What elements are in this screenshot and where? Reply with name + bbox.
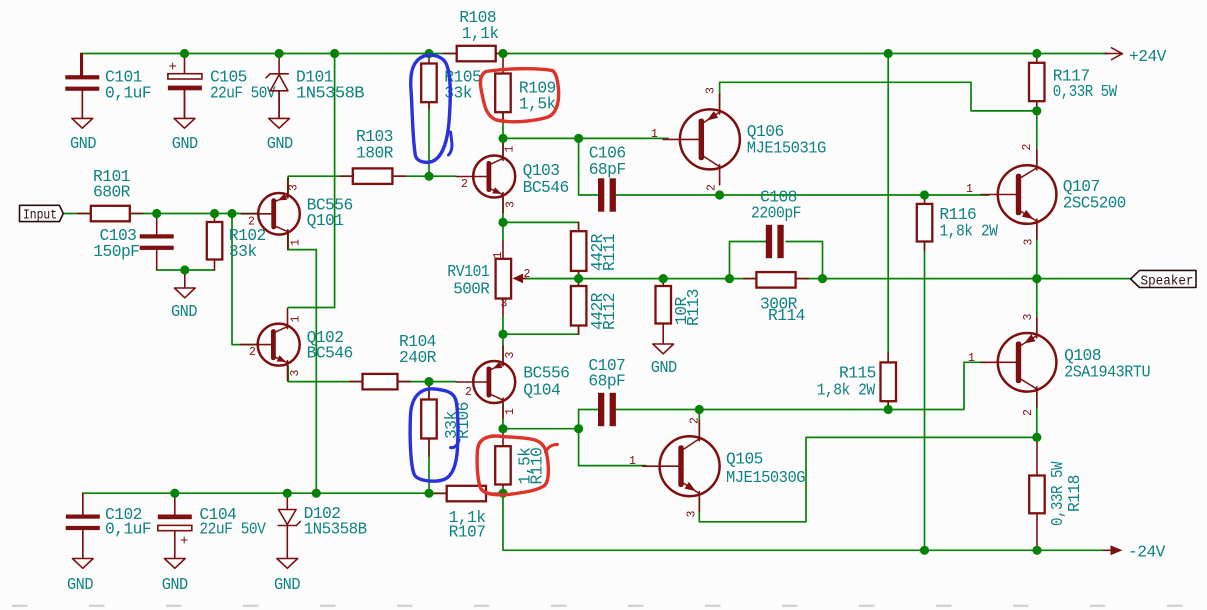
resistor R116: [924, 242, 926, 251]
resistor R101: [78, 213, 91, 215]
svg-text:R114: R114: [768, 306, 805, 325]
transistor Q108: [998, 333, 1057, 392]
svg-text:500R: 500R: [453, 280, 490, 299]
svg-text:MJE15031G: MJE15031G: [747, 139, 826, 158]
wire Q105 base branch: [579, 429, 646, 466]
svg-text:2SC5200: 2SC5200: [1063, 194, 1126, 213]
svg-text:R111: R111: [600, 234, 619, 271]
svg-text:Q105: Q105: [726, 450, 763, 469]
wire R112 top stub: [578, 279, 580, 286]
wire Q102 base: [232, 214, 258, 345]
resistor R106: [428, 383, 430, 400]
capacitor C103: [156, 214, 158, 235]
svg-text:1: 1: [966, 183, 973, 196]
capacitor C101: [81, 54, 83, 76]
svg-text:3: 3: [1023, 239, 1036, 246]
svg-text:68pF: 68pF: [589, 160, 626, 179]
svg-text:1: 1: [290, 239, 303, 246]
wire Q108 emitter to speaker rail: [1036, 279, 1038, 333]
wire +24V top rail: [81, 53, 1108, 55]
wire C106 left branch: [579, 138, 599, 195]
wire C107 left branch: [579, 410, 599, 429]
svg-text:2SA1943RTU: 2SA1943RTU: [1064, 363, 1150, 382]
resistor R107: [434, 493, 447, 495]
wire C107 right to Q108 base: [615, 362, 989, 409]
wire Q106 emitter to R117 bottom: [720, 82, 1037, 111]
svg-text:Input: Input: [23, 208, 57, 223]
annotation red circle R109: [480, 69, 558, 122]
svg-text:2: 2: [248, 216, 255, 229]
wire Q103 emitter node to R111 top: [503, 222, 579, 231]
ground C101: [81, 91, 83, 119]
svg-text:33k: 33k: [229, 242, 257, 261]
svg-text:1: 1: [504, 146, 517, 153]
resistor R108: [444, 53, 457, 55]
svg-text:3: 3: [288, 184, 301, 191]
wire RV101 wiper to speaker rail: [524, 278, 579, 280]
svg-text:R107: R107: [449, 523, 486, 542]
wire Q107 collector: [1036, 111, 1038, 166]
transistor Q107: [998, 165, 1057, 224]
resistor R112: [578, 279, 580, 286]
svg-text:R112: R112: [600, 293, 619, 330]
ground D102: [286, 558, 288, 560]
power port +24V: [1104, 53, 1122, 55]
svg-text:68pF: 68pF: [588, 372, 625, 391]
svg-text:GND: GND: [162, 575, 188, 594]
svg-text:GND: GND: [274, 575, 300, 594]
wire Q102 emitter to R104: [288, 366, 362, 382]
ground input node: [184, 270, 186, 288]
svg-text:1,5k: 1,5k: [519, 95, 556, 114]
wire R109 bottom to Q103 collector: [502, 112, 504, 156]
wire R118 bottom stub: [1036, 513, 1038, 550]
zener diode D102: [286, 493, 288, 509]
power port -24V: [1103, 549, 1112, 551]
wire -24V rail: [503, 493, 1111, 550]
wire Q102 collector horizontal: [288, 307, 334, 309]
wire R104 right to Q104 base node: [398, 381, 457, 383]
wire C101 rail drop: [80, 54, 82, 76]
svg-text:1N5358B: 1N5358B: [304, 520, 368, 539]
ground C104: [174, 558, 176, 560]
svg-text:0,1uF: 0,1uF: [105, 84, 151, 103]
wire R117 top stub: [1036, 54, 1038, 63]
ground C102: [82, 531, 84, 559]
svg-text:2: 2: [706, 184, 719, 191]
transistor Q105: [660, 436, 720, 496]
svg-text:R113: R113: [684, 289, 703, 326]
wire R115 bottom stub: [887, 401, 889, 409]
svg-text:2: 2: [249, 346, 256, 359]
resistor R105: [428, 54, 430, 64]
svg-text:0,1uF: 0,1uF: [105, 520, 151, 539]
svg-text:1N5358B: 1N5358B: [296, 84, 365, 103]
sheet border dashes: [12, 605, 1183, 607]
annotation red circle R110: [477, 436, 548, 495]
capacitor C104: [174, 493, 176, 514]
transistor Q101: [258, 193, 300, 235]
resistor R113: [662, 279, 664, 286]
wire R106 bottom: [428, 439, 430, 494]
capacitor C102: [82, 493, 84, 514]
wire speaker rail: [524, 278, 1131, 280]
svg-text:2: 2: [689, 417, 702, 424]
wire Q105 emitter to R118 node: [699, 437, 1037, 521]
wire C108 left branch: [730, 242, 767, 279]
capacitor C106: [598, 178, 604, 211]
wire Q104 collector: [502, 403, 504, 429]
wire R116 top stub: [924, 195, 926, 204]
svg-text:BC546: BC546: [307, 344, 353, 363]
wire Q101 collector to negative rail vertical: [315, 250, 317, 494]
svg-text:GND: GND: [267, 134, 293, 153]
wire C103/R102 bottom to GND node: [157, 269, 215, 271]
svg-text:3: 3: [505, 201, 518, 208]
wire negative filtered rail: [83, 492, 503, 494]
wire Q105 collector stub: [698, 410, 700, 437]
ground R113: [662, 324, 664, 345]
wire R116 bottom to -24V rail: [924, 242, 926, 551]
svg-text:2: 2: [461, 178, 468, 191]
svg-text:GND: GND: [171, 302, 197, 321]
transistor Q102: [258, 324, 300, 366]
net label Speaker: [1131, 270, 1196, 287]
wire C102 rail drop: [82, 493, 84, 514]
svg-text:+: +: [169, 60, 177, 76]
resistor R104: [350, 381, 363, 383]
resistor R103: [340, 175, 353, 177]
wire RV101 pin3 to mid node: [502, 299, 504, 317]
wire C106 right to Q107 base: [615, 194, 989, 196]
wire Q101 collector: [288, 233, 316, 250]
svg-text:3: 3: [705, 87, 718, 94]
wire R105 bottom to node: [428, 102, 430, 176]
wire R112 bottom to mid node: [503, 326, 579, 335]
svg-text:3: 3: [501, 298, 508, 311]
capacitor C108: [766, 225, 772, 258]
svg-text:GND: GND: [172, 134, 198, 153]
svg-text:1,8k 2W: 1,8k 2W: [817, 381, 876, 400]
svg-text:2: 2: [465, 386, 472, 399]
svg-text:Speaker: Speaker: [1141, 274, 1194, 289]
svg-text:3: 3: [1022, 314, 1035, 321]
potentiometer RV101: [496, 259, 512, 299]
svg-text:3: 3: [686, 511, 699, 518]
svg-text:180R: 180R: [356, 144, 394, 163]
wire R111 bottom stub: [578, 271, 580, 279]
svg-text:Q101: Q101: [307, 211, 344, 230]
transistor Q106: [680, 109, 740, 169]
resistor R102: [214, 214, 216, 223]
ground C105: [184, 90, 186, 118]
svg-text:R118: R118: [1065, 475, 1084, 512]
annotation blue circle R106: [410, 389, 458, 481]
capacitor C107: [598, 393, 604, 426]
svg-text:1: 1: [504, 408, 517, 415]
capacitor C105: [184, 54, 186, 74]
wire Q108 collector: [1036, 391, 1038, 437]
svg-text:3: 3: [289, 370, 302, 377]
svg-text:1,8k 2W: 1,8k 2W: [939, 222, 998, 241]
svg-text:Q104: Q104: [523, 381, 560, 400]
svg-text:MJE15030G: MJE15030G: [726, 468, 805, 487]
wire Q102 collector to +24V rail vertical: [334, 54, 336, 308]
svg-text:22uF 50V: 22uF 50V: [210, 84, 276, 103]
svg-text:GND: GND: [70, 134, 96, 153]
wire Q103 collector node to Q106 base: [503, 137, 668, 139]
wire R106 top stub: [428, 382, 430, 400]
wire +24V rail to R115 top: [887, 54, 889, 363]
wire Q101 emitter to R103: [288, 176, 353, 194]
svg-text:2200pF: 2200pF: [751, 203, 801, 222]
svg-text:0,33R 5W: 0,33R 5W: [1053, 82, 1118, 101]
svg-text:1,1k: 1,1k: [462, 24, 499, 43]
wire R103 right to node: [392, 175, 429, 177]
svg-text:1: 1: [651, 128, 658, 141]
svg-text:1: 1: [629, 455, 636, 468]
resistor R110: [495, 446, 511, 484]
zener diode D101: [278, 54, 280, 74]
wire node to Q103 base: [429, 175, 456, 177]
transistor Q103: [473, 156, 515, 198]
svg-text:2: 2: [1022, 409, 1035, 416]
resistor R114: [743, 278, 756, 280]
wire R117 bottom stub: [1036, 101, 1038, 111]
svg-text:150pF: 150pF: [93, 242, 139, 261]
svg-text:GND: GND: [67, 575, 93, 594]
svg-text:2: 2: [1021, 144, 1034, 151]
wire R118 top stub: [1036, 437, 1038, 475]
wire Q104 collector node to C107 node: [503, 428, 579, 430]
annotation blue circle R105: [411, 55, 451, 162]
svg-text:3: 3: [504, 352, 517, 359]
wire C108 right branch: [786, 242, 823, 279]
svg-text:+: +: [180, 534, 188, 550]
wire R110 bottom stub: [502, 485, 504, 494]
wire R110 top stub: [502, 429, 504, 447]
ground D101: [278, 91, 280, 119]
svg-text:22uF 50V: 22uF 50V: [199, 520, 266, 539]
svg-text:2: 2: [524, 268, 531, 281]
svg-text:R110: R110: [528, 448, 547, 485]
net label Input: [20, 205, 64, 221]
svg-text:GND: GND: [651, 358, 677, 377]
svg-text:-24V: -24V: [1128, 542, 1166, 561]
wire Q103 emitter: [502, 197, 504, 223]
svg-text:BC546: BC546: [523, 178, 569, 197]
svg-text:1: 1: [290, 316, 303, 323]
resistor R118: [1029, 476, 1045, 514]
svg-text:1: 1: [968, 352, 975, 365]
transistor Q104: [473, 361, 515, 403]
svg-text:+24V: +24V: [1129, 47, 1167, 66]
wire input to R101 to Q101 base: [63, 213, 258, 215]
wire RV101 top stem: [502, 222, 504, 241]
resistor R117: [1029, 63, 1045, 101]
wire R102 bottom stub: [214, 260, 216, 271]
resistor R115: [887, 353, 889, 362]
wire Q107 emitter to speaker rail: [1036, 224, 1038, 279]
svg-text:1: 1: [492, 252, 505, 259]
svg-text:240R: 240R: [399, 348, 437, 367]
svg-text:RV101: RV101: [447, 262, 489, 281]
svg-text:680R: 680R: [93, 183, 131, 202]
wire mid node to Q104 emitter: [502, 334, 504, 361]
resistor R111: [578, 222, 580, 231]
resistor R109: [502, 54, 504, 74]
